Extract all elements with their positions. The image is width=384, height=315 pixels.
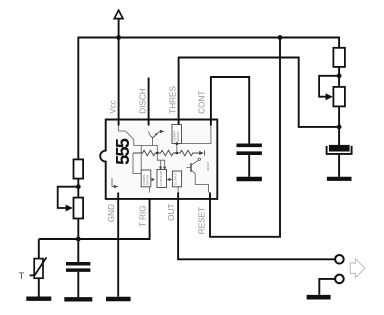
flip-flop box [157, 170, 167, 188]
wire pin RESET to rail [210, 38, 280, 237]
svg-text:RESET: RESET [206, 161, 210, 171]
ground (C3) [327, 177, 352, 181]
svg-text:Vcc: Vcc [109, 100, 118, 114]
ground (connector) [307, 295, 331, 300]
svg-text:OUTPUT: OUTPUT [173, 173, 177, 186]
svg-text:RESET: RESET [198, 207, 207, 234]
junction TRIG node [76, 237, 81, 242]
arrow output stage to flipflop [167, 178, 173, 181]
wire return connector to ground [319, 279, 335, 295]
junction THRES / C3 [337, 125, 342, 130]
wire thermistor to ground [38, 278, 40, 296]
wire C3 to ground [338, 154, 340, 177]
resistor R2 [333, 48, 345, 67]
internal wiring divider tap to comparator [133, 153, 141, 174]
internal wiring Vcc branch [119, 126, 134, 146]
resistor R1 [74, 159, 84, 178]
wire pin THRES to divider [179, 58, 337, 127]
svg-text:DISCH: DISCH [138, 88, 147, 114]
output stage box [172, 171, 181, 187]
junction CONT / comparator [175, 142, 178, 145]
wire VR1 to TRIG node [77, 219, 79, 240]
svg-text:THRES: THRES [168, 86, 177, 114]
connector return [335, 275, 344, 284]
comparator U1b box [141, 170, 151, 187]
potentiometer VR1 [58, 187, 83, 219]
wire rail to R2 [338, 37, 340, 48]
internal wiring OUT to output stage [177, 187, 178, 193]
transistor Q1 discharge [134, 130, 165, 170]
power supply symbol Vcc [114, 10, 123, 37]
capacitor C2 [237, 145, 262, 153]
wire pin DISCH stub [148, 78, 150, 126]
wire thermistor branch [38, 239, 40, 259]
capacitor C3 electrolytic [327, 145, 352, 154]
wire top Vcc rail [78, 37, 339, 39]
op IC U1 555 body [100, 120, 217, 199]
svg-text:OUT: OUT [167, 204, 176, 221]
arrow into flipflop b [163, 167, 166, 171]
junction R1 / VR1 wiper [76, 184, 81, 189]
wire TRIG rail and riser to pin 2 [39, 193, 150, 240]
wire C1 branch [77, 239, 79, 262]
potentiometer VR2 [319, 76, 345, 107]
ground (C2) [237, 177, 262, 181]
svg-text:FLIP FLOP: FLIP FLOP [159, 171, 163, 186]
wire C1 to ground [77, 272, 79, 297]
junction internal chain b [175, 152, 178, 155]
svg-text:GND: GND [107, 204, 116, 222]
svg-text:RATOR: RATOR [176, 130, 180, 141]
wire pin CONT to C2 [211, 77, 249, 144]
wire VR2 to C3 [338, 106, 340, 145]
internal wiring tap to flip-flop [157, 153, 164, 167]
svg-text:555: 555 [113, 138, 133, 165]
svg-text:T: T [19, 271, 25, 282]
wire pin Vcc [118, 38, 120, 126]
thermistor TH1 [30, 257, 47, 278]
connector output [335, 255, 344, 264]
junction R2 / VR2 wiper [337, 73, 342, 78]
svg-text:CONT: CONT [198, 91, 207, 114]
wire pin GND to ground [117, 193, 119, 297]
ground (GND pin) [106, 297, 131, 301]
wire left rail down to R1 [77, 37, 79, 160]
junction Vcc pin / rail [116, 35, 121, 40]
internal GND arrow [112, 178, 118, 188]
wire R2 to VR2 [338, 67, 340, 87]
ground (C1) [64, 297, 92, 301]
internal wiring CONT branch [177, 126, 211, 144]
transistor Q2 reset [187, 158, 210, 193]
junction internal chain a [156, 152, 159, 155]
wire C2 to ground [248, 155, 250, 177]
junction RESET riser / rail [278, 35, 283, 40]
capacitor C1 [66, 264, 90, 270]
signal arrow [350, 259, 365, 278]
internal resistor chain [133, 150, 205, 155]
comparator U1a box [172, 125, 182, 154]
wire R1 to VR1 [77, 179, 79, 198]
svg-text:RATOR: RATOR [146, 174, 150, 185]
svg-text:T RIG: T RIG [139, 205, 148, 227]
ground (thermistor) [26, 297, 51, 301]
arrow into flipflop a [159, 167, 162, 171]
wire pin OUT to connector [178, 193, 335, 260]
internal wiring TRIG to comparator [149, 187, 151, 193]
arrow comparator to flipflop [152, 178, 156, 181]
